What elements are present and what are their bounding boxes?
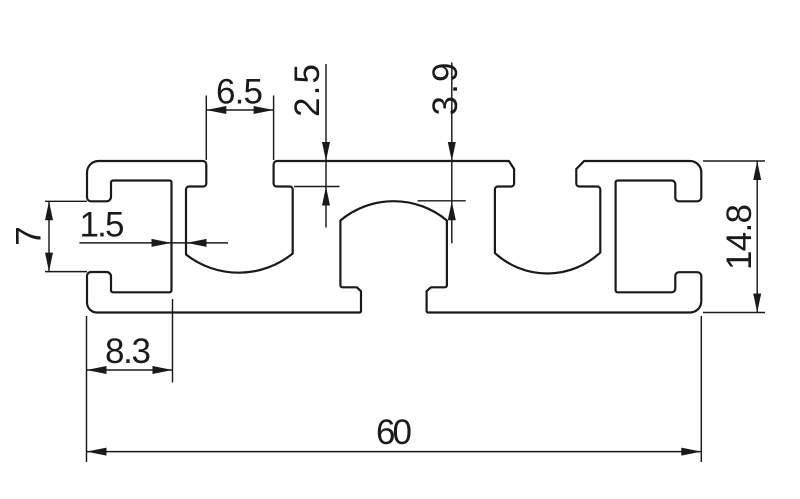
svg-text:14.8: 14.8 bbox=[720, 204, 759, 270]
svg-text:3.9: 3.9 bbox=[426, 63, 465, 116]
svg-text:7: 7 bbox=[10, 226, 49, 245]
dim 14.8 line bbox=[756, 161, 758, 313]
dim 7 ext bbox=[45, 200, 87, 202]
svg-text:2.5: 2.5 bbox=[288, 64, 327, 117]
arrows 7 bbox=[45, 201, 53, 220]
dim 3.9 ext bbox=[418, 200, 466, 202]
dim 3.9 line bbox=[451, 63, 453, 244]
arrows 8.3 bbox=[87, 366, 107, 374]
dim 60 line bbox=[87, 451, 702, 453]
dim 60 right ext bbox=[700, 316, 702, 462]
arrows 2.5 bbox=[322, 142, 330, 161]
dim 14.8 ext bbox=[703, 160, 765, 162]
dim 2.5 line bbox=[325, 64, 327, 228]
dim 7 line bbox=[48, 201, 50, 271]
arrows 1.5 bbox=[152, 239, 172, 247]
dim 8.3 line bbox=[87, 369, 173, 371]
arrows 14.8 bbox=[753, 161, 761, 180]
dim 8.3 / 60 left ext bbox=[86, 316, 88, 462]
arrows 6.5 bbox=[206, 106, 226, 114]
svg-text:8.3: 8.3 bbox=[105, 332, 151, 371]
dim 1.5 line bbox=[79, 242, 228, 244]
dim 6.5 ext lines bbox=[205, 96, 207, 161]
svg-text:6.5: 6.5 bbox=[216, 73, 263, 112]
arrows 60 bbox=[87, 448, 107, 456]
arrows 3.9 bbox=[448, 142, 456, 161]
dim 6.5 line bbox=[206, 109, 273, 111]
svg-text:1.5: 1.5 bbox=[80, 206, 125, 245]
svg-text:60: 60 bbox=[376, 413, 412, 452]
aluminum profile cross-section outline bbox=[87, 161, 701, 313]
dim 2.5 ext bbox=[294, 186, 340, 188]
